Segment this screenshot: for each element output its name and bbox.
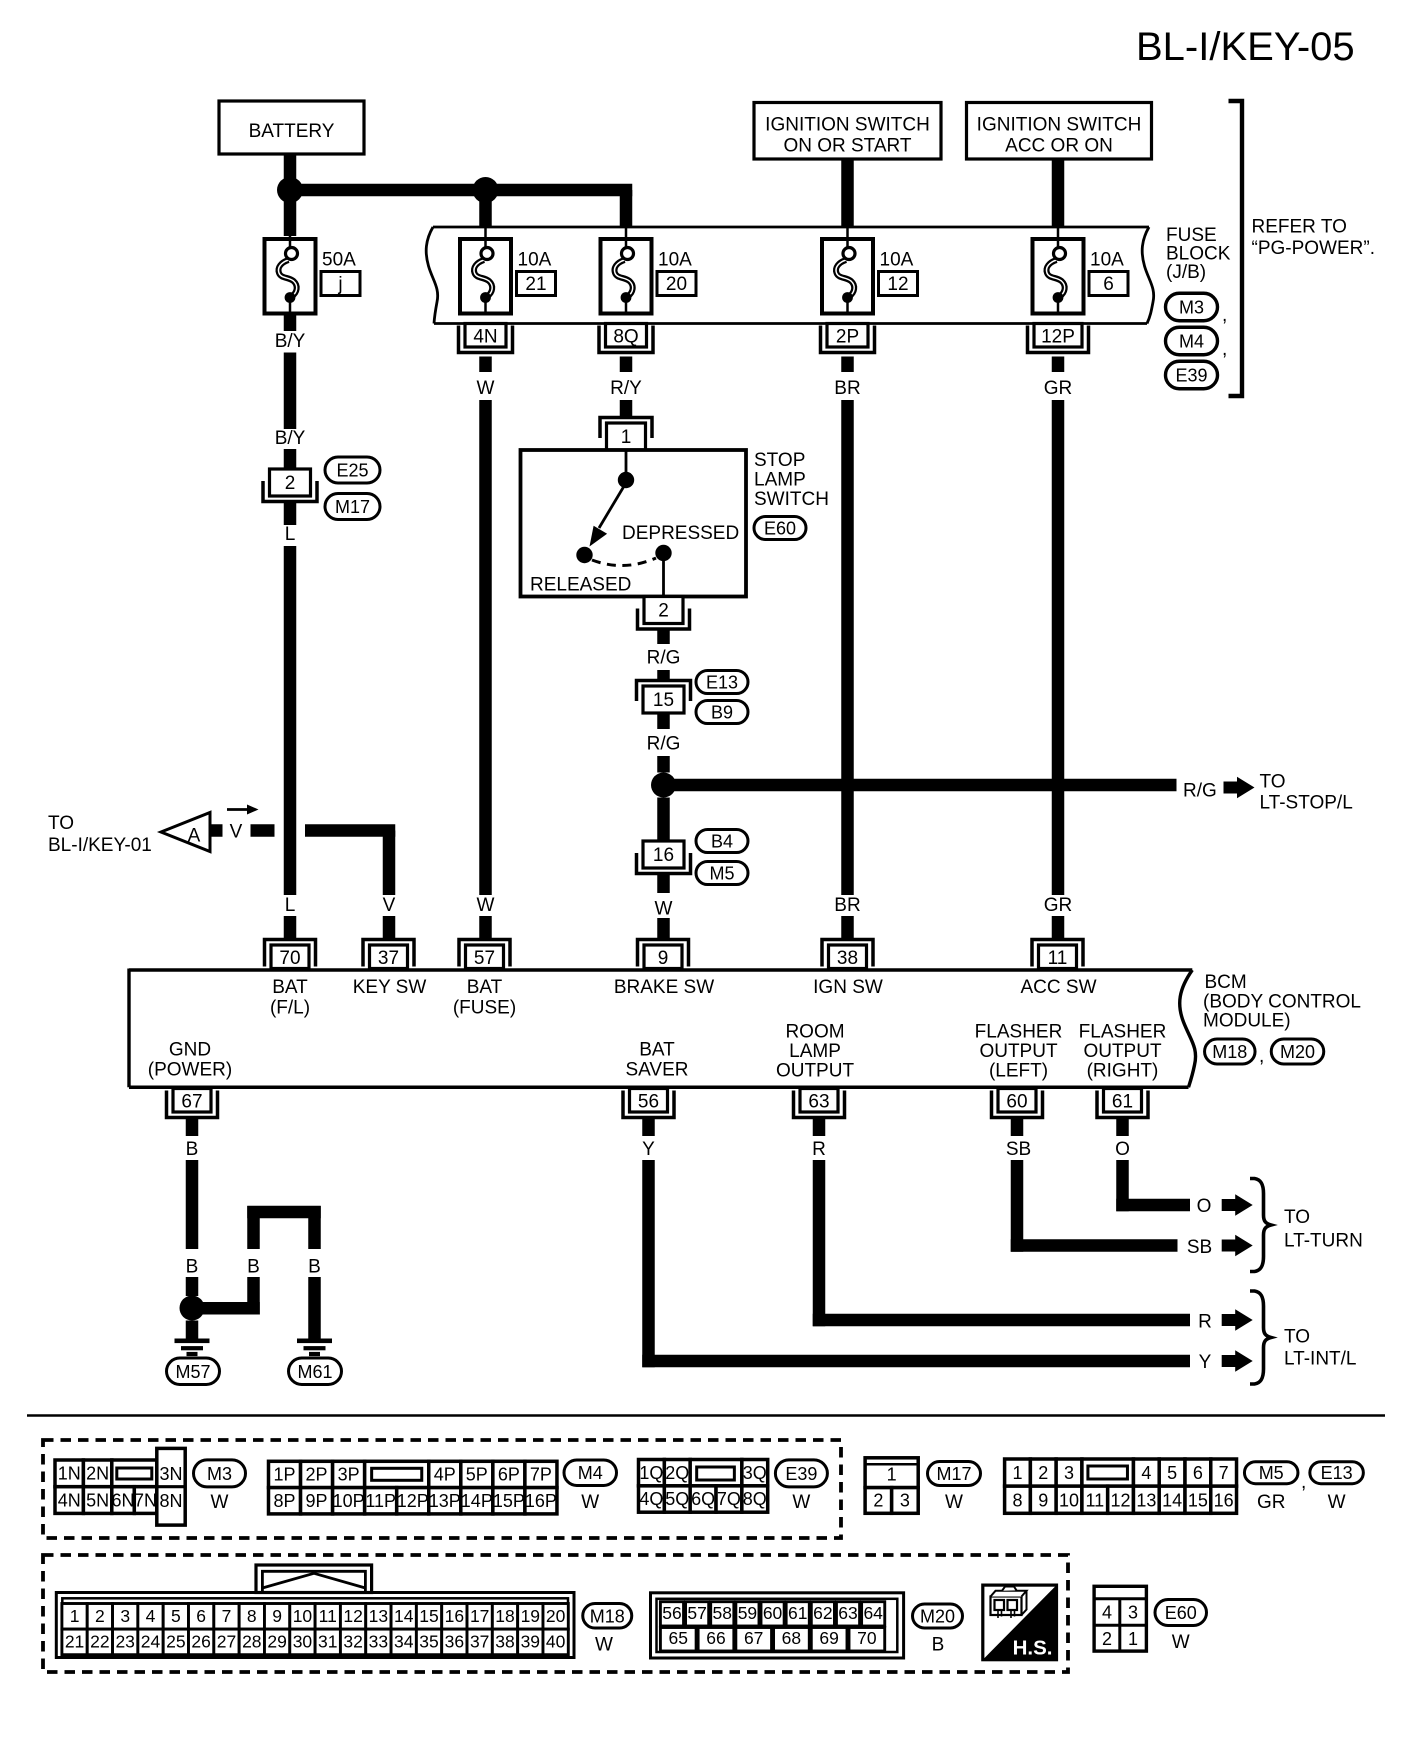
connector ref E39 bbox=[1166, 361, 1218, 389]
svg-text:6: 6 bbox=[1193, 1463, 1203, 1483]
svg-text:38: 38 bbox=[837, 948, 858, 969]
connector ref M4 bbox=[1166, 327, 1228, 360]
svg-text:B: B bbox=[247, 1257, 260, 1278]
svg-text:14: 14 bbox=[1162, 1490, 1182, 1510]
arrow SB to LT-TURN bbox=[1222, 1235, 1253, 1257]
H.S. harness symbol bbox=[983, 1585, 1057, 1660]
svg-text:15P: 15P bbox=[493, 1491, 525, 1511]
pin 60 bbox=[992, 1089, 1043, 1118]
svg-text:10: 10 bbox=[293, 1606, 313, 1626]
svg-text:B: B bbox=[308, 1257, 321, 1278]
svg-text:2N: 2N bbox=[86, 1464, 109, 1484]
pin 38 bbox=[822, 940, 873, 970]
svg-text:R: R bbox=[1198, 1312, 1212, 1333]
connector ref M5 bbox=[696, 862, 748, 885]
title BL-I/KEY-05 bbox=[1136, 25, 1355, 69]
wire middle branch vertical lower bbox=[247, 1277, 260, 1315]
svg-text:M17: M17 bbox=[936, 1464, 971, 1484]
wire right branch lower bbox=[308, 1277, 321, 1340]
connector ref E39 bottom bbox=[775, 1460, 827, 1513]
wire below 2P bbox=[841, 357, 854, 373]
svg-text:6: 6 bbox=[196, 1606, 206, 1626]
connector pinout M5 bbox=[1005, 1459, 1237, 1513]
svg-text:8: 8 bbox=[1012, 1490, 1022, 1510]
svg-text:28: 28 bbox=[242, 1632, 261, 1652]
wire junction to ground M57 bbox=[186, 1321, 199, 1341]
svg-text:12: 12 bbox=[343, 1606, 362, 1626]
svg-text:6Q: 6Q bbox=[691, 1489, 715, 1509]
svg-text:OUTPUT: OUTPUT bbox=[1083, 1041, 1162, 1062]
svg-text:E13: E13 bbox=[706, 673, 738, 693]
svg-text:1N: 1N bbox=[58, 1464, 81, 1484]
wire ignition on-start down to fuse block bbox=[841, 159, 854, 240]
refer to pg-power note bbox=[1252, 217, 1376, 260]
wire W long bbox=[479, 400, 492, 895]
svg-text:SB: SB bbox=[1006, 1139, 1031, 1160]
svg-text:5: 5 bbox=[1167, 1463, 1177, 1483]
svg-text:70: 70 bbox=[857, 1628, 877, 1648]
dashed harness box lower bbox=[43, 1555, 1068, 1672]
connector ref E25 bbox=[325, 457, 380, 483]
pin 63 bbox=[794, 1089, 845, 1118]
wire BR to pin 38 bbox=[841, 916, 854, 940]
ignition switch on-or-start box bbox=[754, 103, 941, 160]
svg-text:67: 67 bbox=[181, 1092, 202, 1113]
svg-text:ACC SW: ACC SW bbox=[1021, 977, 1097, 998]
label TO BL-I/KEY-01 bbox=[48, 813, 152, 856]
svg-text:BATTERY: BATTERY bbox=[249, 121, 335, 142]
stop lamp switch name bbox=[754, 450, 829, 510]
svg-text:70: 70 bbox=[279, 948, 300, 969]
svg-text:64: 64 bbox=[863, 1603, 883, 1623]
svg-text:2: 2 bbox=[285, 473, 296, 494]
pin 61 bbox=[1097, 1089, 1148, 1118]
svg-text:REFER TO: REFER TO bbox=[1252, 217, 1347, 238]
wire SB vertical bbox=[1011, 1160, 1024, 1252]
svg-text:33: 33 bbox=[369, 1632, 388, 1652]
svg-text:12P: 12P bbox=[397, 1491, 429, 1511]
wire V dash bbox=[251, 824, 275, 837]
connector ref M18 bbox=[1205, 1039, 1265, 1067]
svg-text:21: 21 bbox=[65, 1632, 84, 1652]
svg-text:R: R bbox=[812, 1139, 826, 1160]
svg-text:R/G: R/G bbox=[1183, 781, 1217, 802]
label GR top bbox=[1044, 378, 1073, 399]
connector pinout M4 bbox=[269, 1461, 557, 1514]
svg-text:10A: 10A bbox=[880, 250, 914, 271]
svg-text:1Q: 1Q bbox=[639, 1463, 663, 1483]
label R/G lower bbox=[647, 734, 681, 755]
bracket refer-to bbox=[1229, 101, 1243, 396]
svg-text:67: 67 bbox=[744, 1628, 763, 1648]
svg-text:8: 8 bbox=[247, 1606, 257, 1626]
svg-text:8Q: 8Q bbox=[743, 1489, 767, 1509]
svg-text:2P: 2P bbox=[306, 1465, 328, 1485]
svg-text:ROOM: ROOM bbox=[785, 1022, 844, 1043]
connector pin 4N bbox=[459, 324, 513, 353]
off-page triangle A bbox=[161, 813, 210, 852]
svg-text:GR: GR bbox=[1044, 895, 1073, 916]
svg-text:B: B bbox=[932, 1635, 945, 1656]
connector pin 8Q bbox=[599, 324, 653, 353]
wire W to pin 9 bbox=[657, 918, 670, 940]
svg-text:24: 24 bbox=[141, 1632, 161, 1652]
svg-text:56: 56 bbox=[638, 1092, 659, 1113]
svg-text:61: 61 bbox=[1112, 1092, 1133, 1113]
label RELEASED bbox=[530, 575, 631, 596]
wire tap down to fuse block (fuse 21) bbox=[479, 190, 492, 240]
svg-text:5: 5 bbox=[171, 1606, 181, 1626]
svg-text:SB: SB bbox=[1187, 1237, 1212, 1258]
svg-text:SAVER: SAVER bbox=[625, 1060, 688, 1081]
svg-text:BL-I/KEY-01: BL-I/KEY-01 bbox=[48, 835, 152, 856]
svg-text:29: 29 bbox=[267, 1632, 286, 1652]
svg-text:7N: 7N bbox=[134, 1490, 157, 1510]
label GR above pin 11 bbox=[1044, 895, 1073, 916]
svg-text:10A: 10A bbox=[518, 250, 552, 271]
label BAT SAVER bbox=[625, 1040, 688, 1081]
pin 70 bbox=[265, 940, 316, 970]
fuse block label bbox=[1166, 225, 1231, 283]
label KEY SW bbox=[353, 977, 427, 998]
svg-text:LT-STOP/L: LT-STOP/L bbox=[1260, 793, 1353, 814]
svg-text:(FUSE): (FUSE) bbox=[453, 998, 516, 1019]
svg-text:13P: 13P bbox=[429, 1491, 461, 1511]
svg-text:R/G: R/G bbox=[647, 734, 681, 755]
svg-text:“PG-POWER”.: “PG-POWER”. bbox=[1252, 238, 1376, 259]
svg-text:11: 11 bbox=[319, 1606, 337, 1626]
svg-text:20: 20 bbox=[666, 274, 687, 295]
svg-text:62: 62 bbox=[813, 1603, 832, 1623]
svg-text:(F/L): (F/L) bbox=[270, 998, 310, 1019]
svg-text:2: 2 bbox=[95, 1606, 105, 1626]
svg-text:14: 14 bbox=[394, 1606, 414, 1626]
svg-text:3P: 3P bbox=[338, 1465, 360, 1485]
label BR top bbox=[834, 378, 860, 399]
svg-text:27: 27 bbox=[217, 1632, 236, 1652]
svg-text:W: W bbox=[595, 1635, 613, 1656]
svg-text:M3: M3 bbox=[207, 1464, 232, 1484]
svg-text:W: W bbox=[581, 1492, 599, 1513]
wire V to pin bbox=[383, 916, 396, 940]
svg-text:11P: 11P bbox=[365, 1491, 396, 1511]
wire to junction bbox=[657, 756, 670, 773]
wire below connector 15 bbox=[657, 713, 670, 729]
connector pinout M20 bbox=[651, 1593, 904, 1658]
ground symbol M57 bbox=[175, 1339, 210, 1357]
label ROOM LAMP OUTPUT bbox=[776, 1022, 855, 1082]
svg-text:5N: 5N bbox=[86, 1490, 109, 1510]
svg-text:E39: E39 bbox=[1175, 366, 1207, 386]
pin 11 bbox=[1032, 940, 1083, 970]
svg-text:(POWER): (POWER) bbox=[148, 1060, 232, 1081]
wire L long segment bbox=[284, 546, 297, 895]
svg-text:37: 37 bbox=[378, 948, 399, 969]
svg-text:BR: BR bbox=[834, 378, 860, 399]
svg-text:40: 40 bbox=[546, 1632, 566, 1652]
svg-text:BAT: BAT bbox=[467, 977, 503, 998]
fuse 10A 20 bbox=[601, 239, 697, 314]
wire R/G branch horizontal bbox=[664, 779, 1177, 792]
arrow to LT-STOP/L bbox=[1224, 777, 1255, 799]
wire Y vertical bbox=[642, 1160, 655, 1367]
svg-text:2: 2 bbox=[1102, 1629, 1112, 1649]
brace TO LT-TURN bbox=[1250, 1179, 1271, 1272]
svg-text:26: 26 bbox=[191, 1632, 210, 1652]
svg-text:30: 30 bbox=[293, 1632, 313, 1652]
stop lamp switch box bbox=[521, 450, 747, 597]
svg-text:E60: E60 bbox=[764, 519, 796, 539]
svg-text:M57: M57 bbox=[175, 1362, 210, 1382]
label Y under 56 bbox=[642, 1139, 655, 1160]
svg-text:10A: 10A bbox=[658, 250, 692, 271]
label R/G upper bbox=[647, 648, 681, 669]
svg-text:10P: 10P bbox=[333, 1491, 365, 1511]
svg-text:15: 15 bbox=[653, 690, 674, 711]
svg-text:1: 1 bbox=[70, 1606, 80, 1626]
arrow O to LT-TURN bbox=[1222, 1194, 1253, 1216]
arrow Y to LT-INT/L bbox=[1222, 1350, 1253, 1372]
svg-text:12: 12 bbox=[1111, 1490, 1131, 1510]
svg-text:B: B bbox=[186, 1257, 199, 1278]
svg-text:B: B bbox=[186, 1139, 199, 1160]
label SB under 60 bbox=[1006, 1139, 1031, 1160]
svg-text:50A: 50A bbox=[322, 250, 356, 271]
connector ref E13 bbox=[696, 671, 748, 694]
wire Y horizontal bbox=[642, 1355, 1190, 1368]
connector pinout M18 bbox=[56, 1565, 574, 1658]
label TO LT-INT/L bbox=[1284, 1327, 1357, 1370]
svg-text:66: 66 bbox=[706, 1628, 725, 1648]
svg-text:OUTPUT: OUTPUT bbox=[776, 1061, 855, 1082]
svg-text:W: W bbox=[1172, 1632, 1190, 1653]
wire B long bbox=[186, 1160, 199, 1249]
stop lamp switch internals bbox=[576, 450, 671, 597]
svg-text:2: 2 bbox=[873, 1490, 883, 1510]
svg-text:LT-TURN: LT-TURN bbox=[1284, 1231, 1363, 1252]
svg-text:61: 61 bbox=[788, 1603, 807, 1623]
svg-text:LAMP: LAMP bbox=[754, 470, 806, 491]
svg-text:E39: E39 bbox=[785, 1464, 817, 1484]
svg-text:23: 23 bbox=[115, 1632, 134, 1652]
wire V horizontal bbox=[305, 824, 395, 837]
wire O horizontal bbox=[1116, 1199, 1190, 1212]
svg-text:32: 32 bbox=[343, 1632, 362, 1652]
label B right bbox=[308, 1257, 321, 1278]
ground symbol M61 bbox=[297, 1339, 332, 1357]
wire junction to fuse j bbox=[284, 196, 297, 240]
connector ref M3 bottom bbox=[194, 1460, 246, 1513]
svg-text:12P: 12P bbox=[1041, 327, 1075, 348]
svg-text:SWITCH: SWITCH bbox=[754, 489, 829, 510]
connector ref M17 bottom bbox=[928, 1462, 981, 1514]
label GND (POWER) bbox=[148, 1040, 232, 1081]
svg-text:9P: 9P bbox=[306, 1491, 328, 1511]
wire junction to middle branch bbox=[192, 1302, 260, 1315]
svg-text:3: 3 bbox=[1064, 1463, 1074, 1483]
svg-text:39: 39 bbox=[521, 1632, 540, 1652]
svg-text:BR: BR bbox=[834, 895, 860, 916]
svg-text:BAT: BAT bbox=[272, 977, 308, 998]
svg-text:5P: 5P bbox=[466, 1465, 488, 1485]
svg-text:B9: B9 bbox=[711, 703, 733, 723]
svg-text:4: 4 bbox=[1102, 1603, 1112, 1623]
svg-text:16: 16 bbox=[1214, 1490, 1234, 1510]
svg-text:FLASHER: FLASHER bbox=[975, 1022, 1063, 1043]
svg-text:(J/B): (J/B) bbox=[1166, 262, 1206, 283]
svg-text:B/Y: B/Y bbox=[275, 428, 306, 449]
svg-text:6: 6 bbox=[1103, 274, 1114, 295]
svg-text:H.S.: H.S. bbox=[1013, 1637, 1053, 1660]
svg-text:12: 12 bbox=[887, 274, 908, 295]
wire below connector 16 bbox=[657, 874, 670, 894]
svg-text:L: L bbox=[285, 895, 296, 916]
svg-text:LT-INT/L: LT-INT/L bbox=[1284, 1349, 1357, 1370]
svg-text:B/Y: B/Y bbox=[275, 331, 306, 352]
svg-text:E13: E13 bbox=[1321, 1463, 1353, 1483]
connector pin 2 stop lamp switch bbox=[638, 597, 690, 630]
svg-text:31: 31 bbox=[318, 1632, 337, 1652]
connector pinout M17 bbox=[865, 1458, 918, 1513]
fuse 10A 21 bbox=[460, 239, 556, 314]
wire ignition acc down to fuse block bbox=[1052, 159, 1065, 240]
svg-text:RELEASED: RELEASED bbox=[530, 575, 631, 596]
wire pin 60 down bbox=[1011, 1119, 1024, 1136]
svg-text:4Q: 4Q bbox=[639, 1489, 663, 1509]
label Y right bbox=[1199, 1352, 1212, 1373]
svg-text:M4: M4 bbox=[578, 1463, 603, 1483]
svg-text:M17: M17 bbox=[335, 497, 370, 517]
svg-text:DEPRESSED: DEPRESSED bbox=[622, 523, 739, 544]
svg-text:W: W bbox=[211, 1492, 229, 1513]
label R/G right bbox=[1183, 781, 1217, 802]
wire below connector 2 stop lamp bbox=[657, 630, 670, 645]
svg-text:60: 60 bbox=[763, 1603, 783, 1623]
svg-text:57: 57 bbox=[687, 1603, 706, 1623]
wire L to pin 70 bbox=[284, 916, 297, 940]
svg-text:j: j bbox=[337, 274, 342, 295]
wire pin 61 down bbox=[1116, 1119, 1129, 1136]
svg-text:9: 9 bbox=[1038, 1490, 1048, 1510]
label BAT (F/L) bbox=[270, 977, 310, 1019]
connector ref B4 bbox=[696, 830, 748, 853]
arrow R to LT-INT/L bbox=[1222, 1309, 1253, 1331]
svg-text:11: 11 bbox=[1085, 1490, 1104, 1510]
svg-text:10: 10 bbox=[1059, 1490, 1079, 1510]
svg-text:M20: M20 bbox=[1280, 1042, 1315, 1062]
svg-text:M3: M3 bbox=[1179, 298, 1204, 318]
wire R horizontal bbox=[813, 1314, 1190, 1327]
connector ref M20 bbox=[1271, 1039, 1324, 1064]
svg-text:57: 57 bbox=[474, 948, 495, 969]
pin 56 bbox=[623, 1089, 674, 1118]
svg-text:59: 59 bbox=[738, 1603, 757, 1623]
svg-text:(RIGHT): (RIGHT) bbox=[1087, 1061, 1159, 1082]
svg-text:W: W bbox=[477, 895, 495, 916]
svg-text:17: 17 bbox=[470, 1606, 489, 1626]
svg-text:6P: 6P bbox=[498, 1465, 520, 1485]
svg-text:B4: B4 bbox=[711, 832, 733, 852]
svg-text:22: 22 bbox=[90, 1632, 109, 1652]
label TO LT-STOP/L bbox=[1260, 772, 1353, 814]
svg-text:25: 25 bbox=[166, 1632, 185, 1652]
svg-text:1: 1 bbox=[1012, 1463, 1022, 1483]
dashed harness box upper bbox=[43, 1440, 841, 1538]
svg-text:19: 19 bbox=[521, 1606, 540, 1626]
svg-text:R/G: R/G bbox=[647, 648, 681, 669]
svg-text:2: 2 bbox=[1038, 1463, 1048, 1483]
label V lower bbox=[383, 895, 396, 916]
label B/Y lower bbox=[275, 428, 306, 449]
svg-text:13: 13 bbox=[369, 1606, 388, 1626]
svg-text:IGNITION SWITCH: IGNITION SWITCH bbox=[977, 115, 1142, 136]
svg-text:8N: 8N bbox=[159, 1491, 182, 1511]
ground ref M61 bbox=[289, 1358, 342, 1385]
svg-text:65: 65 bbox=[669, 1628, 688, 1648]
svg-text:(LEFT): (LEFT) bbox=[989, 1061, 1048, 1082]
wire B to junction bbox=[186, 1277, 199, 1296]
svg-text:BL-I/KEY-05: BL-I/KEY-05 bbox=[1136, 25, 1355, 69]
svg-text:M61: M61 bbox=[297, 1362, 332, 1382]
ignition switch acc-or-on box bbox=[967, 103, 1152, 160]
label B middle bbox=[247, 1257, 260, 1278]
svg-text:E25: E25 bbox=[336, 461, 368, 481]
svg-text:10A: 10A bbox=[1090, 250, 1124, 271]
junction battery bus bbox=[277, 177, 303, 203]
svg-text:11: 11 bbox=[1048, 948, 1068, 969]
svg-text:R/Y: R/Y bbox=[610, 378, 642, 399]
svg-text:34: 34 bbox=[394, 1632, 414, 1652]
label B/Y upper bbox=[275, 331, 306, 352]
connector ref E60 bbox=[754, 517, 806, 540]
wire pin 67 down bbox=[186, 1119, 199, 1136]
svg-text:7P: 7P bbox=[530, 1465, 552, 1485]
label BRAKE SW bbox=[614, 977, 714, 998]
svg-text:TO: TO bbox=[1284, 1327, 1310, 1348]
wire right branch upper bbox=[308, 1206, 321, 1249]
label W above pin 9 bbox=[655, 899, 673, 920]
svg-text:36: 36 bbox=[445, 1632, 464, 1652]
svg-text:BCM: BCM bbox=[1205, 972, 1247, 993]
connector ref M18 bottom bbox=[583, 1604, 632, 1656]
label L lower bbox=[285, 895, 296, 916]
svg-text:35: 35 bbox=[419, 1632, 438, 1652]
fuse block (J/B) outline bbox=[426, 227, 1154, 324]
wire branch top bar bbox=[247, 1206, 321, 1219]
svg-text:V: V bbox=[230, 822, 243, 843]
svg-text:2: 2 bbox=[658, 601, 669, 622]
svg-text:M18: M18 bbox=[1212, 1042, 1247, 1062]
label DEPRESSED bbox=[622, 523, 739, 544]
wire middle branch vertical upper bbox=[247, 1206, 260, 1249]
svg-text:68: 68 bbox=[782, 1628, 801, 1648]
svg-text:W: W bbox=[1328, 1492, 1346, 1513]
svg-text:A: A bbox=[188, 826, 201, 847]
wire R/Y to connector 1 bbox=[620, 400, 633, 419]
svg-text:15: 15 bbox=[1188, 1490, 1208, 1510]
svg-text:16: 16 bbox=[653, 845, 674, 866]
svg-text:7: 7 bbox=[1219, 1463, 1229, 1483]
svg-text:13: 13 bbox=[1136, 1490, 1156, 1510]
svg-text:69: 69 bbox=[819, 1628, 838, 1648]
svg-text:V: V bbox=[383, 895, 396, 916]
label BR above pin 38 bbox=[834, 895, 860, 916]
svg-text:MODULE): MODULE) bbox=[1203, 1011, 1291, 1032]
svg-text:W: W bbox=[792, 1492, 810, 1513]
label FLASHER OUTPUT (LEFT) bbox=[975, 1022, 1063, 1082]
svg-text:O: O bbox=[1115, 1139, 1130, 1160]
label BAT (FUSE) bbox=[453, 977, 516, 1019]
